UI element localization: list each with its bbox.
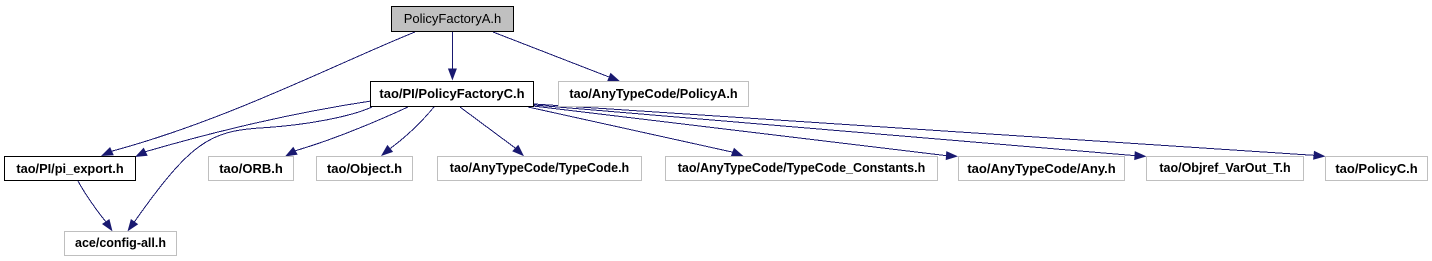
edge tao/PI/PolicyFactoryC.h to tao/PolicyC.h	[534, 104, 1326, 160]
node PolicyFactoryA.h	[391, 6, 514, 32]
node ace/config-all.h	[64, 231, 177, 256]
edge tao/PI/PolicyFactoryC.h to tao/Objref_VarOut_T.h	[534, 105, 1147, 160]
edge tao/PI/PolicyFactoryC.h to ace/config-all.h	[128, 107, 373, 231]
node tao/PI/PolicyFactoryC.h	[370, 81, 534, 107]
node tao/PolicyC.h	[1325, 156, 1428, 181]
node tao/Objref_VarOut_T.h	[1146, 156, 1304, 181]
edge PolicyFactoryA.h to tao/PI/PolicyFactoryC.h	[448, 32, 457, 81]
node tao/AnyTypeCode/Any.h	[958, 156, 1125, 181]
node tao/ORB.h	[208, 156, 294, 181]
edge PolicyFactoryA.h to tao/AnyTypeCode/PolicyA.h	[493, 32, 620, 81]
node tao/AnyTypeCode/TypeCode_Constants.h	[665, 156, 938, 181]
edge tao/PI/PolicyFactoryC.h to tao/Object.h	[381, 107, 434, 156]
edge PolicyFactoryA.h to tao/PI/pi_export.h	[101, 32, 415, 156]
node tao/Object.h	[316, 156, 413, 181]
edge tao/PI/pi_export.h to ace/config-all.h	[78, 181, 113, 231]
node tao/AnyTypeCode/PolicyA.h	[558, 81, 749, 107]
edge tao/PI/PolicyFactoryC.h to tao/AnyTypeCode/TypeCode.h	[460, 107, 524, 156]
edge tao/PI/PolicyFactoryC.h to tao/AnyTypeCode/TypeCode_Constants.h	[528, 107, 744, 156]
node tao/PI/pi_export.h	[4, 156, 136, 181]
node tao/AnyTypeCode/TypeCode.h	[437, 156, 642, 181]
edge tao/PI/PolicyFactoryC.h to tao/ORB.h	[285, 107, 408, 157]
edge tao/PI/PolicyFactoryC.h to tao/AnyTypeCode/Any.h	[533, 106, 958, 160]
edge tao/PI/PolicyFactoryC.h to tao/PI/pi_export.h	[135, 101, 371, 157]
